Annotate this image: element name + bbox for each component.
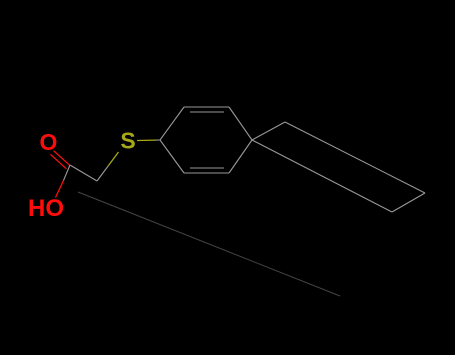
- svg-text:S: S: [120, 128, 135, 154]
- svg-text:HO: HO: [28, 195, 64, 222]
- svg-text:O: O: [40, 129, 58, 155]
